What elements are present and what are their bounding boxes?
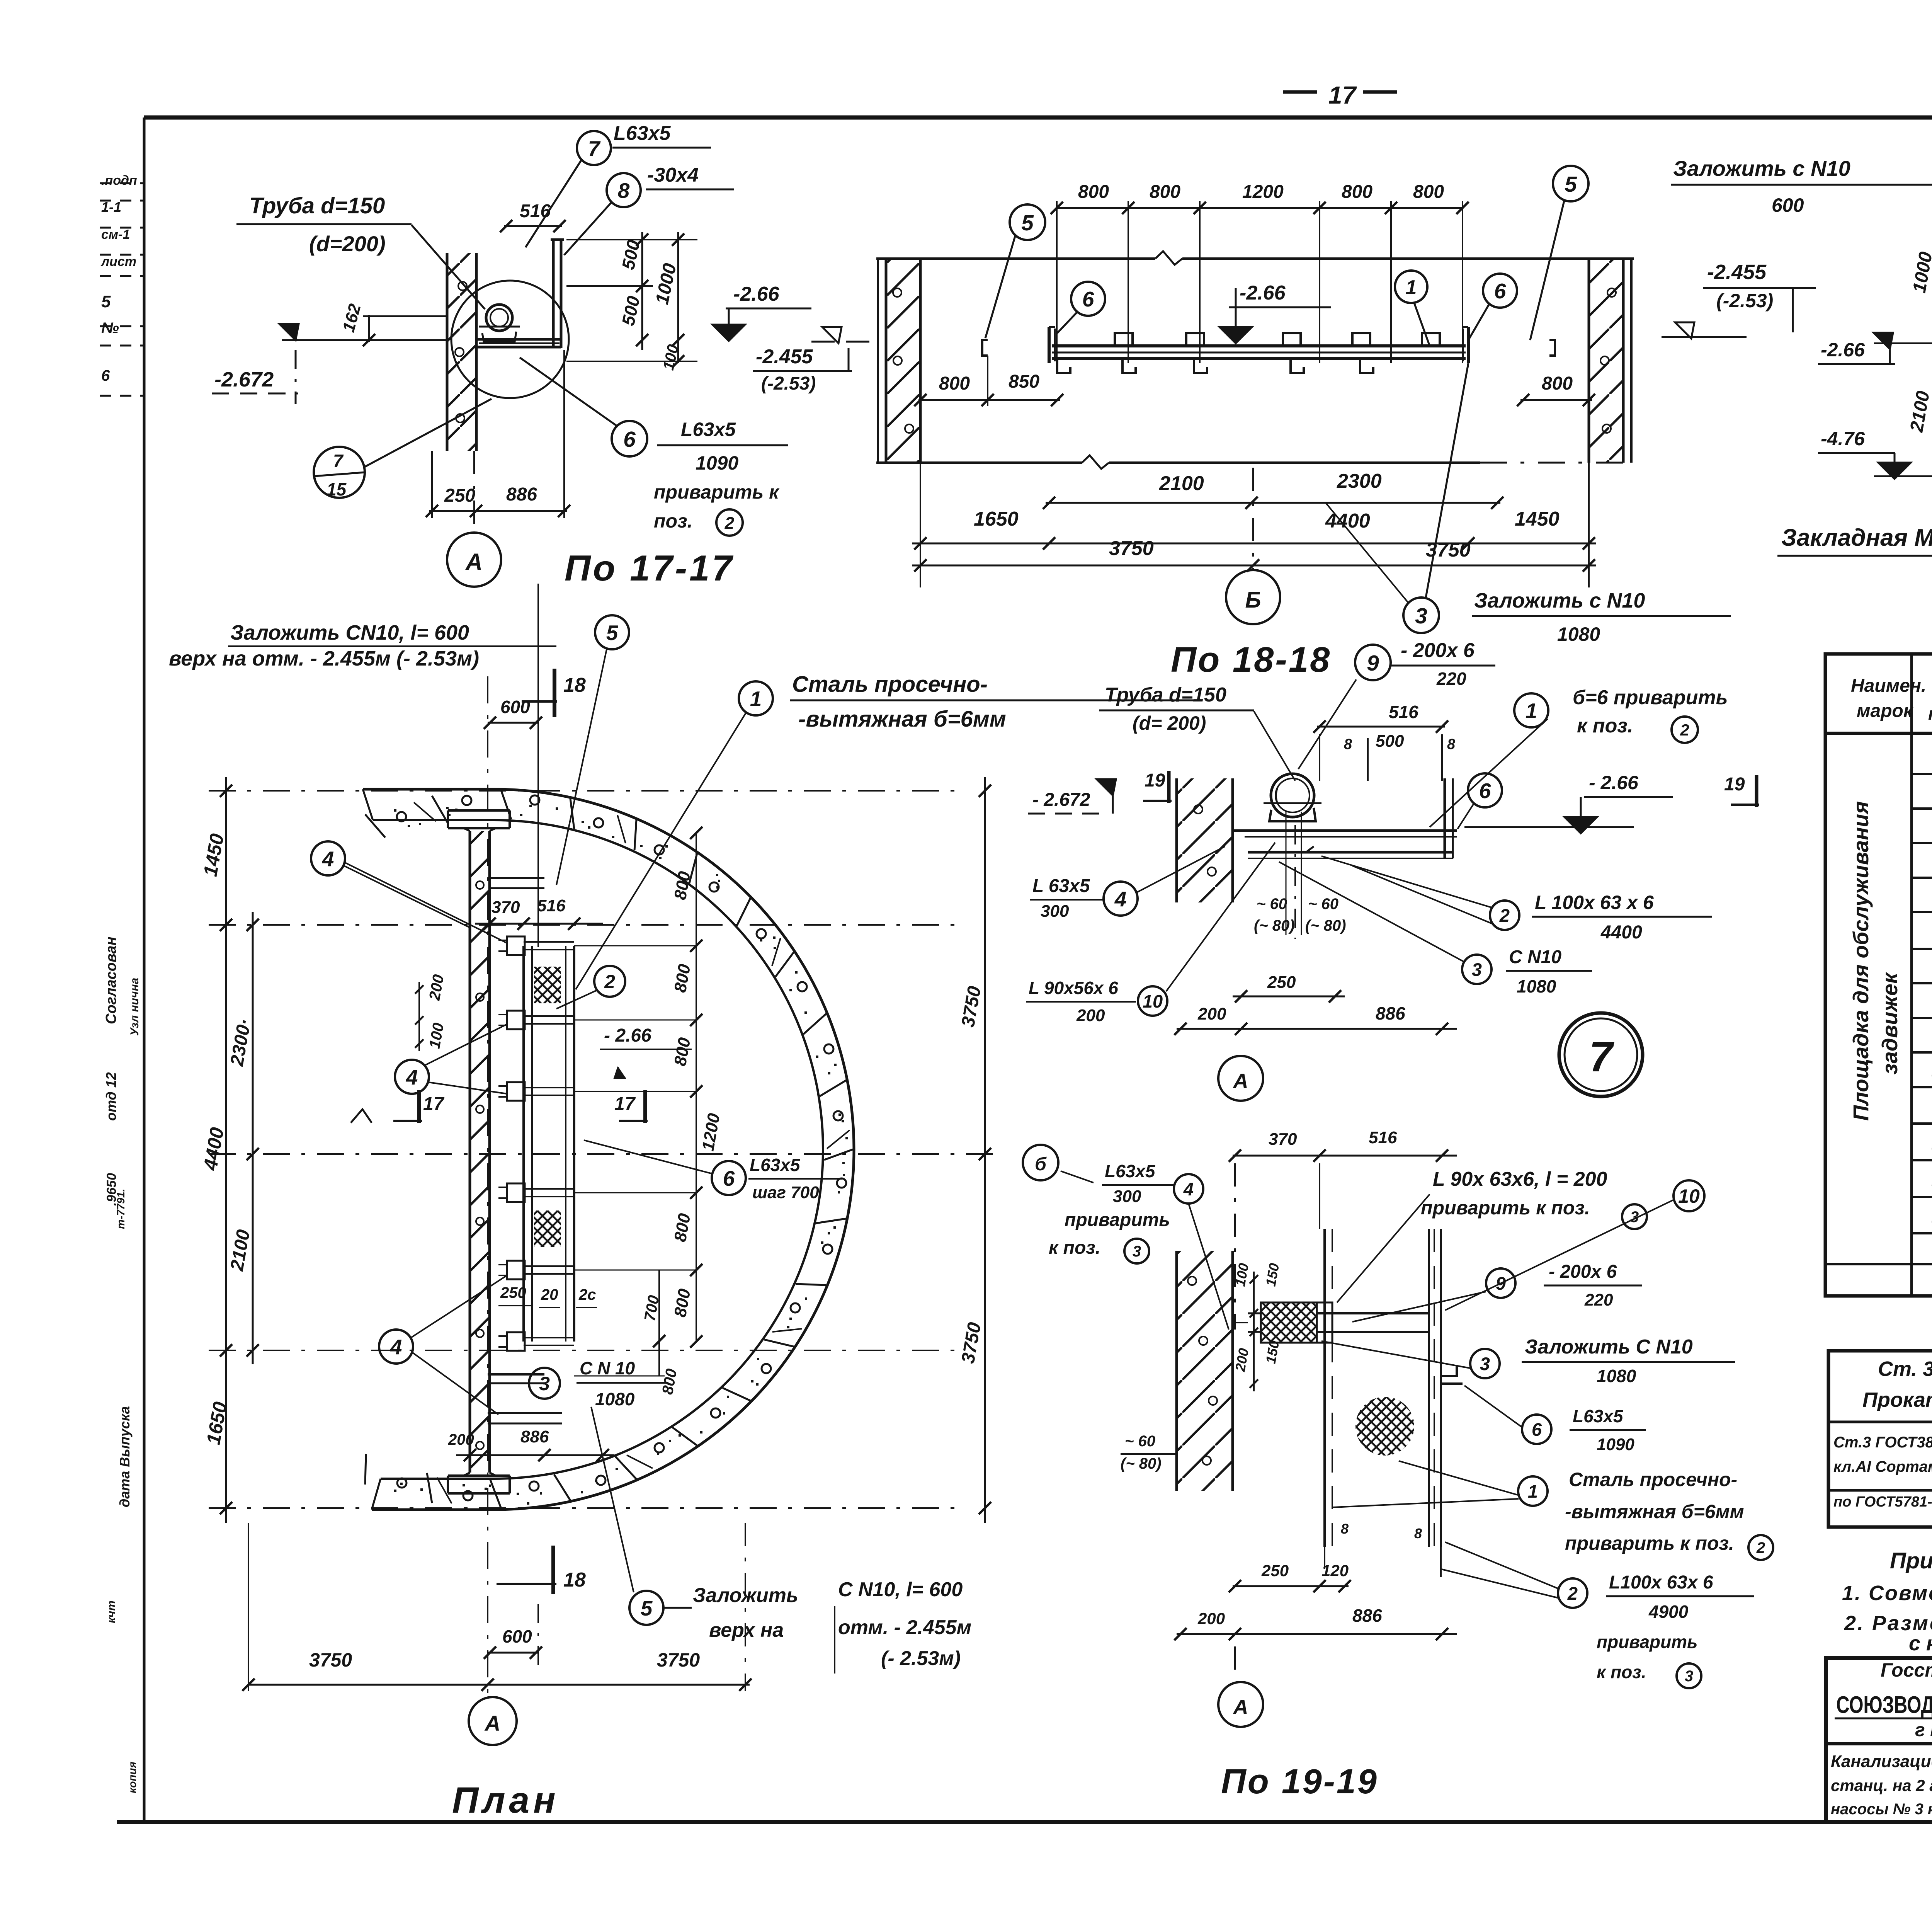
svg-text:-2.455: -2.455 bbox=[1707, 260, 1767, 284]
svg-text:Труба d=150: Труба d=150 bbox=[249, 193, 385, 218]
axis A circle bbox=[1218, 1056, 1263, 1101]
svg-text:(~ 80): (~ 80) bbox=[1254, 917, 1295, 934]
svg-text:1: 1 bbox=[750, 687, 762, 711]
wall hatch bbox=[1589, 259, 1623, 463]
svg-text:516: 516 bbox=[1369, 1128, 1397, 1147]
svg-text:3: 3 bbox=[1133, 1243, 1141, 1260]
angle bottom right 19 bbox=[1441, 1366, 1457, 1376]
callout 2 bbox=[1558, 1578, 1587, 1608]
svg-text:марок: марок bbox=[1857, 701, 1914, 721]
svg-text:19: 19 bbox=[1145, 770, 1165, 791]
svg-text:200: 200 bbox=[1197, 1609, 1225, 1628]
callout 2 bbox=[1490, 901, 1519, 930]
svg-text:17: 17 bbox=[614, 1094, 636, 1114]
wall T-cap bottom bbox=[448, 1474, 510, 1477]
svg-text:5: 5 bbox=[606, 621, 619, 645]
callout 3 bbox=[1470, 1349, 1500, 1378]
svg-text:4: 4 bbox=[406, 1065, 418, 1089]
svg-text:8: 8 bbox=[1414, 1525, 1422, 1541]
svg-text:поз.: поз. bbox=[654, 510, 693, 532]
svg-text:17: 17 bbox=[1328, 81, 1357, 109]
svg-text:1650: 1650 bbox=[974, 508, 1019, 530]
axis circle A (17-17) bbox=[447, 533, 501, 587]
svg-text:9: 9 bbox=[1496, 1273, 1506, 1294]
svg-text:Закладная М-5: Закладная М-5 bbox=[1781, 524, 1932, 551]
callout 1 bbox=[739, 681, 773, 715]
platform beam 18-18 bbox=[1052, 344, 1466, 347]
svg-text:800: 800 bbox=[1542, 373, 1573, 394]
svg-text:Госстрой СССР: Госстрой СССР bbox=[1881, 1659, 1932, 1681]
svg-text:4: 4 bbox=[390, 1335, 402, 1359]
callout 6 bbox=[612, 421, 647, 456]
svg-text:Заложить: Заложить bbox=[693, 1584, 798, 1607]
platform bottom clips bbox=[1057, 359, 1070, 373]
svg-text:шаг 700: шаг 700 bbox=[752, 1183, 819, 1202]
svg-text:200: 200 bbox=[448, 1431, 474, 1448]
plan right dim 3750/3750 bbox=[984, 777, 986, 1523]
svg-text:L63x5: L63x5 bbox=[614, 122, 671, 145]
svg-text:19: 19 bbox=[1724, 774, 1745, 795]
axis A circle 19 bbox=[1218, 1682, 1263, 1727]
svg-text:(~ 80): (~ 80) bbox=[1305, 917, 1346, 934]
svg-text:4: 4 bbox=[322, 847, 334, 871]
svg-text:7: 7 bbox=[333, 451, 344, 471]
svg-text:1. Совместно с данным лис: 1. Совместно с данным листом смотрите ли… bbox=[1842, 1582, 1932, 1605]
svg-text:18: 18 bbox=[563, 674, 586, 696]
svg-text:По 17-17: По 17-17 bbox=[565, 548, 735, 588]
svg-text:L63x5: L63x5 bbox=[681, 419, 736, 440]
extension line level bbox=[282, 339, 448, 341]
plan 17 section marks bbox=[417, 1090, 421, 1123]
svg-text:- 200x 6: - 200x 6 bbox=[1401, 639, 1475, 662]
svg-text:250: 250 bbox=[1261, 1561, 1289, 1580]
svg-text:L63x5: L63x5 bbox=[1105, 1161, 1156, 1181]
svg-text:С N10: С N10 bbox=[1509, 947, 1561, 967]
svg-text:(-2.53): (-2.53) bbox=[761, 373, 816, 394]
svg-text:120: 120 bbox=[1321, 1561, 1349, 1580]
plan view: shaft shell ring bbox=[363, 789, 854, 1510]
svg-text:1: 1 bbox=[1528, 1481, 1538, 1502]
wall hatch 17-17 bbox=[447, 253, 476, 451]
svg-text:516: 516 bbox=[537, 896, 566, 915]
svg-text:1: 1 bbox=[1406, 276, 1417, 299]
svg-text:8: 8 bbox=[1344, 736, 1352, 752]
svg-text:(d=200): (d=200) bbox=[309, 232, 386, 256]
svg-text:По 19-19: По 19-19 bbox=[1221, 1762, 1378, 1801]
crosshatch blob 19 bbox=[1355, 1397, 1414, 1456]
svg-text:Б: Б bbox=[1245, 587, 1261, 613]
svg-text:Ст. 3: Ст. 3 bbox=[1878, 1357, 1932, 1381]
ceiling line bbox=[876, 257, 1155, 260]
svg-text:2. Размеры в круглых ск: 2. Размеры в круглых скобках даны для ст… bbox=[1844, 1612, 1932, 1635]
svg-text:10: 10 bbox=[1678, 1185, 1700, 1207]
svg-text:7: 7 bbox=[588, 136, 601, 160]
svg-text:600: 600 bbox=[500, 697, 530, 717]
callout 6 bbox=[1468, 773, 1502, 807]
svg-text:6: 6 bbox=[1082, 287, 1094, 311]
svg-text:4: 4 bbox=[1183, 1179, 1194, 1199]
svg-text:Узл нична: Узл нична bbox=[128, 978, 141, 1036]
header bottom line bbox=[1825, 732, 1932, 735]
section mark 18 bottom bbox=[551, 1546, 555, 1594]
svg-text:1080: 1080 bbox=[1597, 1366, 1636, 1386]
svg-text:приварить к поз.: приварить к поз. bbox=[1421, 1197, 1590, 1219]
callout 3 bbox=[1124, 1239, 1149, 1263]
svg-text:к поз.: к поз. bbox=[1577, 715, 1633, 737]
callout 4 bbox=[1174, 1174, 1203, 1204]
svg-text:лист: лист bbox=[100, 254, 136, 269]
callout 4 bbox=[395, 1060, 429, 1094]
svg-text:9: 9 bbox=[1367, 651, 1379, 676]
svg-text:СОЮЗВОДОКАНАЛПРОЕКТ: СОЮЗВОДОКАНАЛПРОЕКТ bbox=[1836, 1692, 1932, 1718]
svg-text:2: 2 bbox=[1756, 1539, 1765, 1556]
svg-text:к поз.: к поз. bbox=[1049, 1238, 1100, 1258]
svg-text:Ст.3 ГОСТ380-60: Ст.3 ГОСТ380-60 bbox=[1833, 1434, 1932, 1451]
svg-text:Канализационная насосная: Канализационная насосная bbox=[1831, 1752, 1932, 1771]
svg-text:6: 6 bbox=[1479, 779, 1491, 803]
svg-text:А: А bbox=[465, 549, 482, 575]
svg-text:L 63x5: L 63x5 bbox=[1032, 876, 1090, 896]
svg-text:4400: 4400 bbox=[1600, 922, 1642, 943]
callout 1 bbox=[1514, 693, 1548, 727]
svg-text:.подп: .подп bbox=[101, 173, 137, 188]
svg-text:8: 8 bbox=[618, 179, 630, 203]
svg-text:дата Выпуска: дата Выпуска bbox=[117, 1406, 133, 1507]
dim 370 516 plan bbox=[475, 923, 603, 925]
platform A bbox=[1245, 829, 1457, 832]
svg-text:600: 600 bbox=[502, 1626, 532, 1646]
ladder 19 bbox=[1323, 1229, 1326, 1547]
dim 516 bbox=[1317, 726, 1445, 728]
callout 4 bbox=[1104, 882, 1138, 916]
dim 600 / section 18 top bbox=[488, 722, 538, 724]
sheet page number 17 bbox=[1283, 90, 1317, 94]
callout 9 bbox=[1355, 645, 1391, 680]
svg-text:Сталь просечно-: Сталь просечно- bbox=[792, 672, 988, 697]
svg-text:б: б bbox=[1035, 1154, 1047, 1175]
svg-text:L63x5: L63x5 bbox=[1573, 1406, 1624, 1426]
axis A vertical bbox=[487, 676, 488, 1697]
svg-text:800: 800 bbox=[1150, 182, 1180, 202]
svg-text:Наимен.: Наимен. bbox=[1851, 676, 1926, 696]
svg-text:3: 3 bbox=[1472, 959, 1482, 980]
dim 250 886 bbox=[429, 510, 567, 512]
wall hatch bbox=[1177, 778, 1233, 902]
dims 500/500/1000/100 (17-17) bbox=[566, 239, 697, 240]
svg-text:3: 3 bbox=[1480, 1353, 1490, 1374]
svg-text:верх на отм. - 2.455м (- 2.53: верх на отм. - 2.455м (- 2.53м) bbox=[169, 647, 479, 670]
leader 4 to wall bbox=[1189, 1204, 1229, 1330]
dim 1650 4400 1450 bbox=[912, 543, 1596, 545]
svg-text:- 2.66: - 2.66 bbox=[604, 1025, 651, 1046]
svg-text:370: 370 bbox=[1269, 1130, 1297, 1149]
title block bbox=[1826, 1658, 1932, 1822]
svg-text:-4.76: -4.76 bbox=[1821, 428, 1865, 449]
svg-text:3750: 3750 bbox=[309, 1649, 352, 1671]
dim 600 bottom plan bbox=[488, 1652, 538, 1654]
svg-text:- 2.672: - 2.672 bbox=[1032, 790, 1090, 810]
svg-text:копия: копия bbox=[126, 1762, 138, 1793]
svg-text:370: 370 bbox=[492, 898, 520, 917]
callout 4 bbox=[311, 841, 345, 875]
svg-text:10: 10 bbox=[1143, 991, 1163, 1011]
svg-text:2: 2 bbox=[724, 514, 735, 533]
svg-text:~ 60: ~ 60 bbox=[1257, 896, 1287, 913]
svg-text:3: 3 bbox=[539, 1373, 550, 1394]
svg-text:-2.455: -2.455 bbox=[756, 346, 813, 368]
svg-text:850: 850 bbox=[1009, 371, 1039, 392]
svg-text:Согласован: Согласован bbox=[103, 936, 119, 1024]
svg-text:250: 250 bbox=[500, 1284, 526, 1301]
dim 516 (17-17) bbox=[504, 225, 562, 227]
svg-text:200: 200 bbox=[1197, 1004, 1226, 1023]
table row lines bbox=[1912, 773, 1932, 775]
dim 800 right bbox=[1520, 399, 1592, 401]
floor line bbox=[876, 461, 1082, 464]
svg-text:1080: 1080 bbox=[595, 1389, 635, 1409]
svg-text:300: 300 bbox=[1113, 1187, 1141, 1206]
svg-text:Площадка для обслуживания: Площадка для обслуживания bbox=[1849, 801, 1873, 1121]
svg-text:приварить: приварить bbox=[1065, 1210, 1170, 1230]
svg-text:886: 886 bbox=[1352, 1605, 1382, 1626]
svg-text:с насосами 4НФ.: с насосами 4НФ. bbox=[1909, 1632, 1932, 1655]
leader to pipe bbox=[412, 225, 485, 309]
svg-text:516: 516 bbox=[1389, 702, 1418, 722]
svg-text:L 90x 63x6, l = 200: L 90x 63x6, l = 200 bbox=[1433, 1168, 1607, 1190]
sheet number 7 bbox=[1559, 1013, 1643, 1096]
svg-text:1200: 1200 bbox=[1242, 182, 1284, 202]
svg-text:886: 886 bbox=[1376, 1003, 1405, 1023]
svg-text:Примечания:: Примечания: bbox=[1890, 1548, 1932, 1573]
bracket 19 bbox=[1261, 1302, 1317, 1343]
svg-text:1: 1 bbox=[1526, 699, 1537, 723]
svg-text:5: 5 bbox=[1021, 211, 1034, 235]
svg-text:~ 60: ~ 60 bbox=[1125, 1433, 1155, 1450]
callout 6 bbox=[1522, 1415, 1551, 1444]
svg-text:6: 6 bbox=[101, 367, 110, 384]
svg-text:План: План bbox=[452, 1780, 560, 1821]
svg-text:~ 60: ~ 60 bbox=[1308, 896, 1338, 913]
svg-text:18: 18 bbox=[563, 1569, 586, 1591]
callout 3 bbox=[1622, 1204, 1647, 1229]
svg-text:800: 800 bbox=[1342, 182, 1372, 202]
svg-text:-вытяжная б=6мм: -вытяжная б=6мм bbox=[798, 707, 1006, 732]
callout 2 bbox=[1672, 717, 1698, 743]
svg-text:б=6 приварить: б=6 приварить bbox=[1573, 686, 1728, 709]
svg-text:Заложить С N10: Заложить С N10 bbox=[1525, 1336, 1693, 1358]
svg-text:220: 220 bbox=[1584, 1290, 1613, 1309]
plan top connector bbox=[491, 877, 544, 879]
svg-text:см-1: см-1 bbox=[101, 227, 130, 242]
svg-text:-2.66: -2.66 bbox=[1821, 339, 1865, 361]
svg-text:-2.66: -2.66 bbox=[733, 283, 780, 305]
svg-text:6: 6 bbox=[1532, 1419, 1542, 1440]
svg-text:1080: 1080 bbox=[1557, 623, 1600, 645]
svg-text:886: 886 bbox=[506, 484, 537, 505]
dim 370 516 (19) bbox=[1233, 1155, 1457, 1157]
callout 5 bbox=[595, 615, 629, 649]
dim 3750 3750 bottom bbox=[912, 565, 1596, 567]
svg-text:2: 2 bbox=[1567, 1583, 1578, 1604]
svg-text:8: 8 bbox=[1447, 736, 1456, 752]
callout 3 bbox=[529, 1368, 560, 1399]
svg-text:- 2.66: - 2.66 bbox=[1589, 772, 1639, 793]
svg-text:800: 800 bbox=[939, 373, 970, 394]
svg-text:по ГОСТ5781- 61: по ГОСТ5781- 61 bbox=[1833, 1494, 1932, 1510]
svg-text:(d= 200): (d= 200) bbox=[1133, 712, 1206, 734]
callout 5 bbox=[1010, 204, 1045, 240]
plan ladder assembly bbox=[522, 946, 525, 1342]
svg-text:L63x5: L63x5 bbox=[750, 1155, 801, 1175]
svg-text:2: 2 bbox=[1680, 721, 1689, 739]
wall hatch bbox=[1177, 1251, 1233, 1491]
dim 2100 2300 bbox=[1046, 502, 1500, 504]
svg-text:L 100x 63 x 6: L 100x 63 x 6 bbox=[1535, 892, 1654, 913]
svg-text:приварить к: приварить к bbox=[654, 481, 780, 503]
rim end cut top bbox=[363, 789, 373, 820]
svg-text:кл.АI Сортамент: кл.АI Сортамент bbox=[1833, 1458, 1932, 1475]
callout 6 bbox=[1071, 282, 1105, 316]
weld mark bbox=[1306, 846, 1321, 852]
svg-text:2100: 2100 bbox=[1159, 472, 1204, 495]
svg-text:300: 300 bbox=[1041, 902, 1069, 921]
callout 2 bbox=[1748, 1535, 1773, 1560]
dim 162 bbox=[368, 315, 370, 342]
svg-text:(~ 80): (~ 80) bbox=[1121, 1455, 1162, 1472]
callout 6 bbox=[1483, 274, 1517, 308]
callout 5 bbox=[629, 1591, 663, 1625]
svg-text:кчт: кчт bbox=[105, 1600, 118, 1623]
dim 800 850 left bbox=[918, 399, 1060, 401]
callout 2 bbox=[716, 509, 743, 536]
svg-text:800: 800 bbox=[1413, 182, 1444, 202]
svg-text:отм. - 2.455м: отм. - 2.455м bbox=[838, 1616, 971, 1639]
svg-text:250: 250 bbox=[444, 485, 475, 506]
svg-text:С N 10: С N 10 bbox=[580, 1358, 635, 1378]
svg-text:А: А bbox=[1233, 1069, 1248, 1093]
wall T-cap top bbox=[448, 809, 510, 812]
svg-text:7: 7 bbox=[1589, 1033, 1614, 1081]
svg-text:С N10, l= 600: С N10, l= 600 bbox=[838, 1578, 963, 1601]
callout 9 bbox=[1486, 1268, 1515, 1298]
svg-text:2: 2 bbox=[1499, 905, 1510, 926]
svg-text:200: 200 bbox=[1076, 1006, 1105, 1025]
platform angle 17-17 bbox=[476, 338, 561, 341]
svg-text:приварить: приварить bbox=[1597, 1632, 1697, 1652]
svg-text:5: 5 bbox=[1565, 172, 1577, 197]
svg-text:отд 12: отд 12 bbox=[103, 1072, 119, 1121]
pipe d150 bbox=[486, 305, 512, 331]
plan bottom dim 3750/3750 bbox=[248, 1684, 750, 1686]
svg-text:Заложить с N10: Заложить с N10 bbox=[1673, 156, 1850, 180]
svg-text:- 200x 6: - 200x 6 bbox=[1549, 1262, 1617, 1282]
axis circle A bottom plan bbox=[469, 1697, 517, 1745]
svg-text:8: 8 bbox=[1341, 1521, 1349, 1537]
svg-text:5: 5 bbox=[101, 292, 111, 311]
svg-text:L100x 63x 6: L100x 63x 6 bbox=[1609, 1572, 1713, 1593]
svg-text:17: 17 bbox=[423, 1094, 445, 1114]
svg-text:-вытяжная б=6мм: -вытяжная б=6мм bbox=[1565, 1501, 1744, 1522]
plan bottom connector bbox=[488, 1373, 544, 1376]
svg-text:1450: 1450 bbox=[1515, 508, 1560, 530]
callout 4 bbox=[379, 1330, 413, 1364]
plan left dims bbox=[225, 777, 227, 1523]
svg-text:-2.66: -2.66 bbox=[1240, 282, 1286, 304]
svg-text:516: 516 bbox=[520, 201, 551, 221]
svg-text:2с: 2с bbox=[578, 1286, 596, 1303]
svg-text:3: 3 bbox=[1685, 1668, 1693, 1685]
svg-text:-2.672: -2.672 bbox=[214, 368, 274, 391]
callout 7/15 flag bbox=[314, 447, 365, 498]
svg-text:4900: 4900 bbox=[1648, 1602, 1689, 1622]
svg-text:Труба d=150: Труба d=150 bbox=[1105, 684, 1226, 706]
svg-text:(- 2.53м): (- 2.53м) bbox=[881, 1647, 961, 1670]
callout 5 bbox=[1553, 166, 1588, 201]
callout 3 bbox=[1403, 598, 1439, 633]
svg-text:к поз.: к поз. bbox=[1597, 1662, 1646, 1682]
callout 6 bbox=[712, 1161, 746, 1195]
svg-text:1080: 1080 bbox=[1517, 976, 1556, 996]
svg-text:6: 6 bbox=[723, 1166, 735, 1190]
svg-text:насосы № 3 к 1.4или 4НФ: насосы № 3 к 1.4или 4НФ bbox=[1831, 1801, 1932, 1818]
straight wall in plan bbox=[469, 831, 471, 1473]
callout 10 bbox=[1138, 986, 1167, 1016]
svg-text:220: 220 bbox=[1436, 669, 1466, 689]
wall clips in plan bbox=[507, 936, 525, 955]
svg-text:задвижек: задвижек bbox=[1878, 972, 1902, 1074]
svg-text:3750: 3750 bbox=[1109, 537, 1154, 560]
rim hatch bbox=[365, 790, 853, 1508]
wall hatch bbox=[886, 259, 920, 463]
svg-text:6: 6 bbox=[1494, 279, 1506, 303]
svg-text:600: 600 bbox=[1772, 194, 1804, 216]
svg-text:г Москва.: г Москва. bbox=[1915, 1720, 1932, 1740]
svg-text:Сталь просечно-: Сталь просечно- bbox=[1569, 1469, 1737, 1490]
platform top tabs bbox=[1115, 333, 1133, 346]
svg-text:По 18-18: По 18-18 bbox=[1171, 640, 1331, 679]
steel specification table bbox=[1825, 654, 1932, 1296]
axis B circle 19 bbox=[1023, 1145, 1058, 1180]
axis circle B (18-18) bbox=[1226, 570, 1280, 624]
svg-text:2300: 2300 bbox=[1337, 470, 1382, 492]
callout 3 bbox=[1462, 955, 1492, 984]
svg-text:20: 20 bbox=[541, 1286, 558, 1303]
detail circle 17-17 bbox=[451, 281, 569, 398]
svg-text:Заложить СN10, l= 600: Заложить СN10, l= 600 bbox=[230, 621, 469, 644]
plan grid lines bbox=[209, 790, 958, 792]
svg-text:1090: 1090 bbox=[696, 452, 738, 474]
svg-text:250: 250 bbox=[1267, 973, 1296, 992]
svg-text:А: А bbox=[484, 1711, 500, 1735]
hatch patches ladder bbox=[534, 967, 561, 1247]
pipe A bbox=[1271, 774, 1314, 817]
rim end cut bottom bbox=[372, 1479, 381, 1510]
svg-text:2: 2 bbox=[604, 971, 615, 993]
callout 1 bbox=[1395, 271, 1427, 303]
callout 1 bbox=[1518, 1476, 1548, 1506]
plan inner 800 dims bbox=[696, 833, 697, 1342]
projection line right bbox=[537, 584, 539, 947]
dims 250 886 A bbox=[1233, 996, 1345, 998]
callout 10 bbox=[1673, 1180, 1704, 1211]
svg-text:Прокат: Прокат bbox=[1862, 1388, 1932, 1411]
svg-text:3: 3 bbox=[1415, 604, 1427, 628]
callout 7 bbox=[577, 131, 611, 165]
svg-text:станц. на 2 агрегата: станц. на 2 агрегата bbox=[1831, 1776, 1932, 1794]
svg-text:3750: 3750 bbox=[657, 1649, 700, 1671]
svg-text:(-2.53): (-2.53) bbox=[1716, 290, 1773, 312]
callout 2 bbox=[594, 966, 625, 997]
